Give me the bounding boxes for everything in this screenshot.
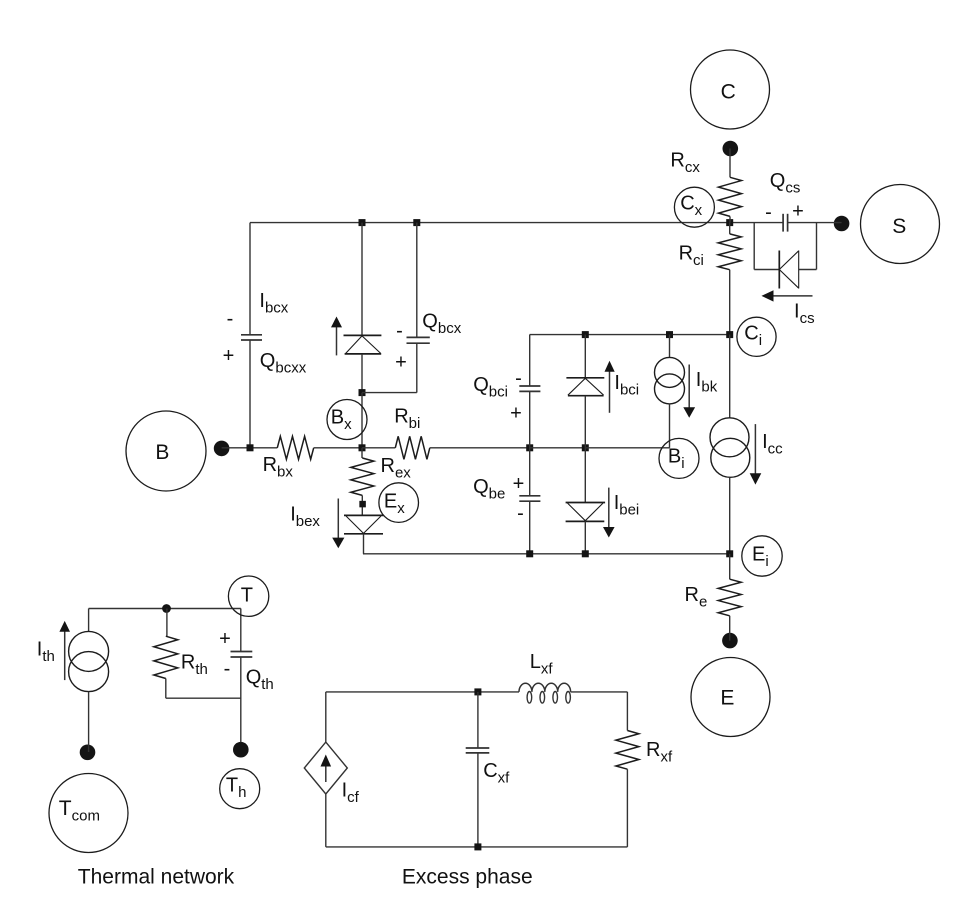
svg-text:Thermal network: Thermal network xyxy=(78,866,235,889)
wire diode branch to Bi xyxy=(585,447,669,449)
wire Rbx to Bx xyxy=(314,447,362,449)
node square Ci-Ibk xyxy=(666,331,673,338)
svg-text:Excess phase: Excess phase xyxy=(402,866,533,889)
svg-text:-: - xyxy=(396,320,403,342)
label Ics xyxy=(794,301,815,328)
diode Dbcx xyxy=(344,335,382,354)
svg-text:C: C xyxy=(721,81,736,104)
Qth plus xyxy=(219,628,231,650)
node square bottom-Qbe xyxy=(526,550,533,557)
Qcs plus xyxy=(792,200,804,222)
wire Qbci upper xyxy=(529,335,531,386)
terminal Tcom xyxy=(49,774,128,853)
Qbcx minus xyxy=(396,320,403,342)
wire C dot to Rcx xyxy=(729,149,731,178)
current source Ith xyxy=(69,631,109,691)
node square top-Qbcx xyxy=(413,219,420,226)
resistor Rth xyxy=(154,609,208,679)
wire B dot to Rbx xyxy=(222,447,278,449)
node square base-left xyxy=(247,444,254,451)
wire thermal top xyxy=(89,608,241,610)
arrow Ith up xyxy=(59,621,70,680)
wire left branch upper xyxy=(249,223,251,335)
svg-text:T: T xyxy=(241,584,253,606)
wire Rcx to rail xyxy=(729,216,731,222)
node square base-Bx xyxy=(359,444,366,451)
Qbcxx plus xyxy=(223,345,235,367)
node dot thermal xyxy=(162,604,171,613)
node circle Ci xyxy=(737,317,776,356)
Qcs minus xyxy=(765,201,772,223)
wire Dbei lower xyxy=(584,521,586,553)
svg-text:+: + xyxy=(395,352,407,374)
svg-text:+: + xyxy=(219,628,231,650)
wire Dbci upper xyxy=(584,335,586,378)
Qcs box bottom right xyxy=(799,269,817,271)
current source Icf diamond xyxy=(304,692,347,847)
node circle Bx xyxy=(327,400,367,440)
wire Ci to Icc xyxy=(729,335,731,418)
svg-text:B: B xyxy=(155,441,169,464)
wire diode branch lower xyxy=(361,354,363,393)
wire left branch lower xyxy=(249,340,251,448)
svg-text:+: + xyxy=(792,200,804,222)
resistor Rex xyxy=(351,448,411,496)
wire Ith lower xyxy=(88,692,90,752)
Qbci minus xyxy=(515,367,522,389)
label Ibk xyxy=(696,369,718,396)
svg-text:+: + xyxy=(510,403,522,425)
svg-text:E: E xyxy=(720,687,734,710)
wire Dbex to bottom rail xyxy=(363,534,365,554)
caption excess phase xyxy=(402,866,533,889)
node square Ci-diode xyxy=(582,331,589,338)
wire Qbcx to junction xyxy=(362,392,417,394)
Qbcxx minus xyxy=(227,308,234,330)
label Ibci xyxy=(614,372,639,399)
wire Rci to Ci xyxy=(729,270,731,335)
arrow Ibex down xyxy=(332,499,344,549)
node circle Th xyxy=(220,769,260,809)
terminal dot C xyxy=(723,141,739,157)
node circle Ex xyxy=(379,483,419,523)
wire Icc to Ei xyxy=(729,477,731,554)
label Qbci xyxy=(473,374,508,401)
wire Rxf lower xyxy=(626,769,628,847)
wire excess top left xyxy=(326,691,519,693)
wire Dbci lower xyxy=(584,396,586,448)
wire Re to E dot xyxy=(729,616,731,641)
Qbe plus xyxy=(513,473,525,495)
inductor Lxf xyxy=(519,651,571,703)
wire Qbcx upper xyxy=(416,223,418,338)
label Icf xyxy=(342,779,360,806)
current source Icc xyxy=(710,418,750,478)
wire Qth lower xyxy=(240,657,242,742)
terminal dot Tcom xyxy=(80,745,96,761)
node square base-diode xyxy=(582,444,589,451)
node square top-diode xyxy=(359,219,366,226)
arrow Ibei down xyxy=(603,488,615,538)
caption thermal network xyxy=(78,866,235,889)
resistor Rcx xyxy=(670,150,741,217)
Qbe minus xyxy=(517,503,524,525)
wire Qth upper xyxy=(240,609,242,652)
capacitor Qbe plates xyxy=(519,496,540,501)
wire Ibk lower xyxy=(669,404,671,448)
capacitor Qbcx plates xyxy=(407,337,430,343)
terminal S xyxy=(861,185,940,264)
wire Ith upper xyxy=(88,609,90,632)
terminal dot E xyxy=(722,633,738,649)
label Cxf xyxy=(483,760,510,787)
capacitor Qbci plates xyxy=(519,386,540,391)
node square top-Rcx xyxy=(726,219,733,226)
label Ibei xyxy=(614,492,640,519)
wire Dbei upper xyxy=(584,448,586,503)
wire Qbcx lower xyxy=(416,343,418,392)
diode Dcs xyxy=(779,251,798,289)
capacitor Qbcxx plates xyxy=(241,335,262,340)
wire top rail left xyxy=(250,222,783,224)
wire Ibk upper xyxy=(669,335,671,358)
wire Ci rail xyxy=(530,334,730,336)
Qcs box right xyxy=(816,223,818,270)
node square excess top xyxy=(474,688,481,695)
label Ibex xyxy=(290,503,320,530)
Qth minus xyxy=(224,658,231,680)
capacitor Qcs xyxy=(770,170,801,232)
svg-text:-: - xyxy=(765,201,772,223)
wire bottom rail xyxy=(363,553,730,555)
label Ith xyxy=(37,638,55,665)
diode Dbex xyxy=(344,515,384,533)
svg-text:+: + xyxy=(513,473,525,495)
diode Dbci xyxy=(566,378,604,396)
resistor Rci xyxy=(679,223,742,270)
resistor Rbx xyxy=(263,436,314,480)
node circle Cx xyxy=(674,187,714,227)
node square base-Qbci xyxy=(526,444,533,451)
current source Ibk xyxy=(655,357,685,404)
resistor Re xyxy=(685,554,742,616)
node square excess bottom xyxy=(474,843,481,850)
wire excess bottom xyxy=(326,846,628,848)
wire Qbe lower xyxy=(529,501,531,554)
svg-text:+: + xyxy=(223,345,235,367)
terminal E xyxy=(691,658,770,737)
arrow Ibci up xyxy=(605,361,615,413)
svg-text:S: S xyxy=(892,215,906,238)
node circle Ei xyxy=(742,536,782,576)
arrow Ibk down xyxy=(683,365,695,418)
label Ibcx xyxy=(259,290,288,317)
label Qbe xyxy=(473,476,505,503)
wire diode junction to Bx xyxy=(361,393,363,448)
svg-text:-: - xyxy=(517,503,524,525)
wire excess top right xyxy=(571,691,628,693)
node circle T xyxy=(228,576,268,616)
wire top rail right xyxy=(787,222,841,224)
node square bottom-diode xyxy=(582,550,589,557)
Qcs box left xyxy=(753,223,755,270)
terminal dot Th xyxy=(233,742,249,758)
capacitor Cxf xyxy=(466,692,490,847)
label Qbcxx xyxy=(260,350,307,377)
label Icc xyxy=(762,431,783,458)
diode Dbei xyxy=(566,503,606,522)
wire diode branch upper xyxy=(361,223,363,336)
capacitor Qth plates xyxy=(231,652,253,658)
wire Qbci middle xyxy=(529,391,531,495)
svg-text:-: - xyxy=(224,658,231,680)
node square Ci-main xyxy=(726,331,733,338)
wire Qbci to diode branch xyxy=(530,447,586,449)
svg-text:-: - xyxy=(515,367,522,389)
node square diode-Qbcx junction xyxy=(359,389,366,396)
arrow Icc down xyxy=(750,424,762,485)
Qbci plus xyxy=(510,403,522,425)
arrow Icf up xyxy=(321,755,332,783)
arrow Ics xyxy=(762,290,813,301)
terminal B xyxy=(126,411,206,491)
resistor Rbi xyxy=(394,405,430,459)
Qcs box bottom left xyxy=(754,269,779,271)
resistor Rxf xyxy=(616,692,673,769)
wire Rbi to Qbci branch xyxy=(430,447,530,449)
node square bottom-Ei xyxy=(726,550,733,557)
arrow Ibcx up xyxy=(331,317,342,356)
terminal dot B xyxy=(214,441,230,457)
label Qth xyxy=(246,667,274,694)
wire Rth bottom xyxy=(166,679,241,699)
terminal dot S xyxy=(834,216,850,232)
node square Ex xyxy=(359,495,366,515)
wire Bx to Rbi xyxy=(362,447,395,449)
label Qbcx xyxy=(422,310,461,337)
Qbcx plus xyxy=(395,352,407,374)
terminal C xyxy=(691,50,770,129)
svg-text:-: - xyxy=(227,308,234,330)
node circle Bi xyxy=(659,438,699,478)
